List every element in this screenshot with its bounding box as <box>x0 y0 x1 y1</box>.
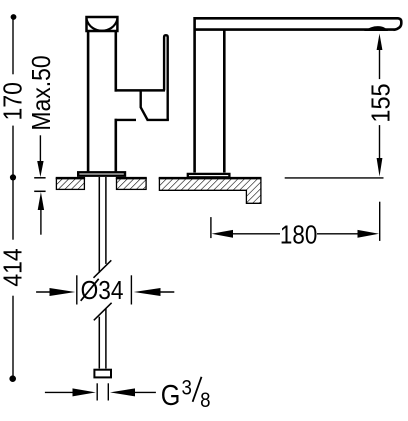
G3/8 right arrow <box>110 388 135 396</box>
Max.50 top tick <box>34 177 45 179</box>
dimension 180 left tick <box>210 217 212 238</box>
Max.50 bottom tick <box>34 190 45 192</box>
G3/8 left tick <box>96 383 98 400</box>
spout outlet mound <box>364 26 388 31</box>
countertop right piece (hatched, stepped edge) <box>159 179 261 204</box>
dia34 right tick <box>130 275 132 304</box>
supply pipe right line lower <box>105 309 107 369</box>
body ledge line <box>115 119 136 121</box>
dimension 155 up arrow <box>377 34 383 51</box>
supply pipe left line upper <box>98 177 100 273</box>
mixer base flange <box>78 172 125 175</box>
dimension 155 down arrow <box>379 125 381 158</box>
dimension line 414/170 (left vertical) <box>12 17 14 378</box>
mixer cap dish arc <box>87 20 118 31</box>
svg-text:155: 155 <box>368 83 396 122</box>
dia34 right arrow <box>134 288 161 296</box>
reference line under spout <box>285 177 384 179</box>
mixer top cap <box>87 17 118 31</box>
svg-text:414: 414 <box>0 248 28 286</box>
svg-text:3: 3 <box>182 376 192 399</box>
lever handle <box>164 35 168 120</box>
dimension 180 left arrow <box>212 230 234 238</box>
svg-text:O34: O34 <box>81 277 124 306</box>
mixer body right edge upper <box>115 31 118 92</box>
pipe break slash lower <box>94 303 112 321</box>
G3/8 dim left arrow <box>45 391 78 393</box>
countertop right piece top edge <box>159 177 262 179</box>
Max.50 up arrow <box>38 192 44 210</box>
spout riser right edge <box>223 30 226 173</box>
svg-text:G: G <box>161 378 181 411</box>
dot bottom <box>9 375 16 382</box>
G3/8 right tick <box>107 383 109 400</box>
spout arm and riser outline <box>195 18 402 172</box>
spout bottom line <box>195 28 395 31</box>
supply pipe right line upper <box>105 177 107 264</box>
svg-text:170: 170 <box>0 82 28 120</box>
mixer body right edge lower <box>115 119 118 172</box>
countertop left piece (hatched) <box>56 179 84 190</box>
mixer step line <box>115 89 166 92</box>
pipe break slash upper <box>94 260 112 278</box>
diameter slash through O <box>81 279 99 301</box>
G3/8 connector <box>94 370 111 378</box>
dia34 left tick <box>76 275 78 304</box>
countertop middle piece (hatched) <box>117 179 147 190</box>
dia34 left arrow <box>36 291 55 293</box>
svg-text:180: 180 <box>280 221 317 250</box>
dimension 180 right tick <box>379 202 381 241</box>
lever skirt bottom <box>147 119 169 121</box>
dot middle <box>10 174 16 180</box>
dot top <box>11 14 17 20</box>
supply pipe left line lower <box>98 317 100 369</box>
svg-text:8: 8 <box>200 389 210 412</box>
mixer body left edge <box>87 31 90 172</box>
svg-text:Max.50: Max.50 <box>28 55 56 130</box>
countertop middle piece top edge <box>116 177 147 179</box>
dimension 180 right arrow <box>317 233 359 235</box>
Max.50 down arrow <box>39 135 41 162</box>
lever skirt left chamfer <box>141 90 148 120</box>
countertop left piece top edge <box>56 177 85 179</box>
fraction slash <box>193 377 202 402</box>
spout base flange <box>188 174 230 177</box>
